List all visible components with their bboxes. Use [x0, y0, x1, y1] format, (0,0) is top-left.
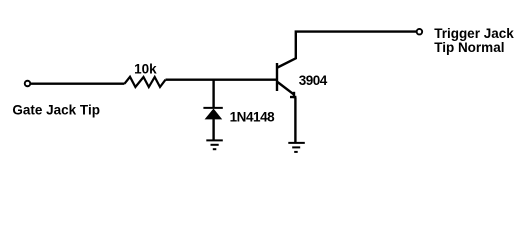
svg-text:Tip Normal: Tip Normal — [434, 40, 504, 55]
svg-text:10k: 10k — [134, 62, 157, 77]
svg-text:1N4148: 1N4148 — [230, 110, 276, 125]
svg-text:Gate Jack Tip: Gate Jack Tip — [12, 102, 100, 117]
svg-text:Trigger Jack: Trigger Jack — [434, 26, 514, 41]
svg-text:3904: 3904 — [299, 73, 328, 88]
